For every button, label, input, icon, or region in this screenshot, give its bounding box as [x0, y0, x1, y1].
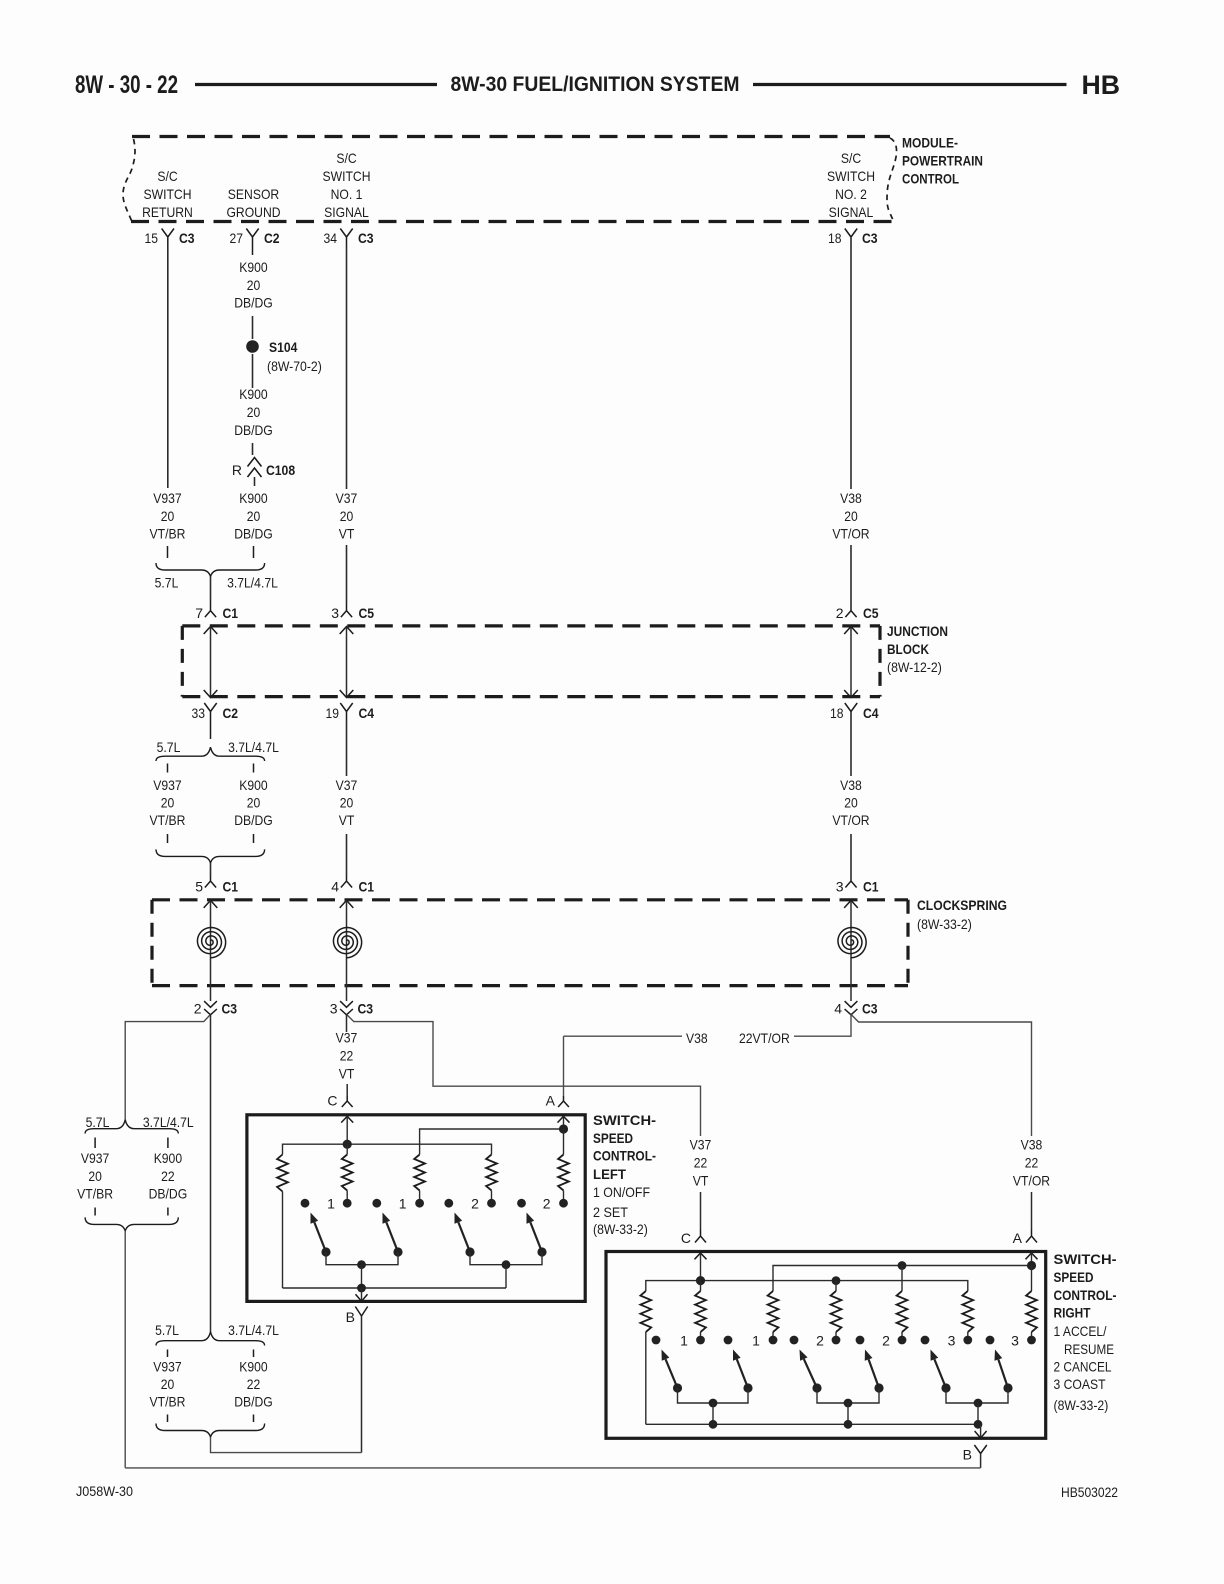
svg-text:SENSOR: SENSOR	[228, 186, 279, 202]
node switch S1 C	[343, 1140, 352, 1149]
node resistor R7 bottom pin 1	[696, 1336, 705, 1345]
junction block pass-through wire col1	[204, 627, 218, 635]
svg-text:MODULE-: MODULE-	[902, 135, 958, 151]
svg-text:VT/BR: VT/BR	[150, 526, 186, 542]
module U1 POWERTRAIN CONTROL top dashed edge	[132, 135, 890, 138]
svg-text:1 ON/OFF: 1 ON/OFF	[593, 1184, 650, 1200]
svg-text:VT/BR: VT/BR	[150, 812, 186, 828]
svg-text:V937: V937	[153, 777, 182, 793]
switch S1 C rail	[283, 1144, 492, 1154]
svg-text:A: A	[546, 1093, 556, 1109]
svg-text:20: 20	[844, 795, 858, 811]
svg-text:20: 20	[161, 508, 175, 524]
svg-text:C3: C3	[862, 230, 878, 246]
svg-text:C3: C3	[358, 1001, 374, 1017]
switch S2 terminal B connector	[974, 1445, 986, 1454]
svg-text:1: 1	[752, 1333, 760, 1349]
wire S/C switch no.2 signal V38	[850, 246, 852, 489]
clockspring dashed box right edge	[906, 900, 909, 986]
svg-text:S/C: S/C	[157, 168, 177, 184]
svg-text:3.7L/4.7L: 3.7L/4.7L	[143, 1114, 194, 1130]
svg-text:8W-30 FUEL/IGNITION SYSTEM: 8W-30 FUEL/IGNITION SYSTEM	[451, 73, 740, 96]
switch S1 pole bus left pair	[326, 1252, 398, 1265]
module U1 left torn edge	[123, 139, 135, 221]
svg-text:22: 22	[340, 1048, 354, 1064]
switch arm Q3	[465, 1247, 474, 1256]
switch S1 terminal C connector	[342, 1096, 353, 1107]
node resistor R12 bottom pin 3	[1027, 1336, 1036, 1345]
svg-text:5.7L: 5.7L	[157, 739, 181, 755]
connector C3 pin 18	[845, 229, 857, 247]
wire stub center col V937	[167, 1350, 169, 1358]
wire V37 to junction block	[346, 545, 348, 602]
svg-text:34: 34	[324, 230, 338, 246]
svg-text:2: 2	[836, 605, 844, 621]
svg-text:3.7L/4.7L: 3.7L/4.7L	[228, 739, 279, 755]
switch throw contact coast 2	[986, 1336, 995, 1345]
wire V38 right lower segment	[1031, 1192, 1033, 1230]
svg-text:7: 7	[195, 605, 203, 621]
svg-text:C2: C2	[264, 230, 280, 246]
resistor R8	[772, 1332, 774, 1336]
svg-text:NO. 1: NO. 1	[331, 186, 363, 202]
wire sensor ground upper segment	[252, 316, 254, 339]
svg-text:8W - 30 - 22: 8W - 30 - 22	[75, 71, 178, 99]
connector C1 pin 5	[205, 876, 216, 888]
svg-text:C: C	[681, 1230, 691, 1246]
svg-text:V937: V937	[81, 1150, 110, 1166]
svg-text:(8W-33-2): (8W-33-2)	[1054, 1397, 1109, 1413]
wire V38 to left switch A with label	[794, 1014, 851, 1036]
svg-text:DB/DG: DB/DG	[234, 1394, 273, 1410]
node A rail to resistor R10	[898, 1261, 907, 1270]
engine split brace 5.7L / 3.7L-4.7L merge	[156, 563, 265, 577]
svg-text:5.7L: 5.7L	[155, 1322, 179, 1338]
clockspring dashed box left edge	[150, 900, 153, 986]
resistor R9	[835, 1281, 837, 1291]
svg-text:DB/DG: DB/DG	[234, 812, 273, 828]
switch arm Q9	[941, 1383, 950, 1392]
switch S1 B exit wire	[361, 1288, 363, 1301]
svg-text:SIGNAL: SIGNAL	[829, 204, 874, 220]
svg-text:SIGNAL: SIGNAL	[324, 204, 369, 220]
wire V937/K900 main down	[210, 1014, 212, 1331]
node resistor R9 bottom pin 2	[832, 1336, 841, 1345]
resistor R4	[486, 1155, 497, 1191]
resistor R1 (left common)	[277, 1155, 288, 1192]
svg-text:POWERTRAIN: POWERTRAIN	[902, 153, 983, 169]
svg-text:5.7L: 5.7L	[86, 1114, 110, 1130]
svg-text:K900: K900	[239, 777, 268, 793]
switch S2 terminal A connector	[1026, 1230, 1037, 1243]
switch S1 terminal A connector	[558, 1096, 569, 1107]
connector C5 pin 2	[845, 602, 856, 617]
svg-text:3.7L/4.7L: 3.7L/4.7L	[227, 575, 278, 591]
svg-text:2: 2	[543, 1196, 551, 1212]
wire V37 branch to right switch	[347, 1014, 701, 1136]
wire B bus bottom	[125, 1467, 980, 1469]
clockspring coil wire col2	[340, 900, 354, 908]
wire stub col V937	[94, 1138, 96, 1149]
connector C4 pin 18	[845, 703, 857, 720]
clockspring dashed box bottom edge	[152, 984, 908, 987]
svg-text:BLOCK: BLOCK	[887, 641, 929, 657]
node resistor R10 bottom pin 2	[898, 1336, 907, 1345]
switch throw contact 4	[517, 1199, 526, 1208]
resistor R7	[700, 1281, 702, 1291]
svg-text:V38: V38	[840, 490, 862, 506]
svg-text:C1: C1	[863, 879, 879, 895]
svg-text:1: 1	[680, 1333, 688, 1349]
svg-text:VT/OR: VT/OR	[832, 812, 869, 828]
svg-text:SWITCH: SWITCH	[323, 168, 371, 184]
switch S2 A rail	[773, 1266, 1032, 1292]
node resistor R4 bottom pin 2	[487, 1199, 496, 1208]
svg-text:VT/OR: VT/OR	[1013, 1173, 1050, 1189]
connector C3 pin 15	[162, 229, 174, 247]
junction block pass-through wire col3	[844, 627, 858, 635]
resistor R11	[962, 1291, 973, 1332]
svg-text:DB/DG: DB/DG	[149, 1186, 188, 1202]
switch S2 C rail	[646, 1281, 968, 1291]
wire merged to junction block	[210, 577, 212, 602]
switch S1 terminal B connector	[355, 1307, 367, 1317]
svg-text:RIGHT: RIGHT	[1054, 1305, 1091, 1321]
svg-text:22VT/OR: 22VT/OR	[739, 1030, 790, 1046]
node resistor R2 bottom pin 1	[343, 1199, 352, 1208]
node switch S2 A	[1027, 1261, 1036, 1270]
svg-text:20: 20	[161, 795, 175, 811]
svg-text:GROUND: GROUND	[226, 204, 280, 220]
switch throw contact cancel 1	[790, 1336, 799, 1345]
svg-text:V37: V37	[336, 1030, 358, 1046]
svg-text:C4: C4	[359, 705, 375, 721]
switch S1 terminal C entry arrow	[341, 1116, 353, 1122]
svg-text:C3: C3	[222, 1001, 238, 1017]
switch S2 B exit wire	[980, 1424, 982, 1437]
svg-text:(8W-12-2): (8W-12-2)	[887, 659, 942, 675]
svg-text:VT: VT	[339, 526, 355, 542]
resistor R3	[414, 1155, 425, 1191]
switch S2 terminal C entry arrow	[695, 1253, 707, 1259]
svg-text:2: 2	[471, 1196, 479, 1212]
svg-text:K900: K900	[239, 1359, 268, 1375]
svg-text:2 SET: 2 SET	[593, 1204, 628, 1220]
wire stub col2 above merge	[253, 834, 255, 843]
svg-text:B: B	[346, 1309, 355, 1325]
svg-text:VT: VT	[339, 1066, 355, 1082]
svg-text:C1: C1	[359, 879, 375, 895]
switch S1 A rail	[420, 1129, 564, 1155]
wire stub col1 below split	[167, 764, 169, 773]
junction block dashed box top edge	[182, 624, 880, 627]
svg-text:V38: V38	[1021, 1137, 1043, 1153]
svg-text:JUNCTION: JUNCTION	[887, 623, 948, 639]
svg-text:1 ACCEL/: 1 ACCEL/	[1054, 1323, 1107, 1339]
wire V37 right lower segment	[700, 1192, 702, 1230]
switch arm Q6	[743, 1383, 752, 1392]
engine split brace 5.7L / 3.7L-4.7L split	[156, 747, 265, 761]
svg-text:C2: C2	[223, 705, 239, 721]
wire above C108	[252, 443, 254, 455]
switch S2 terminal C connector	[695, 1230, 706, 1243]
switch S2 terminal A entry arrow	[1026, 1253, 1038, 1259]
wire stub col K900	[167, 1138, 169, 1149]
junction block pass-through wire col2	[340, 627, 354, 635]
svg-text:22: 22	[247, 1376, 261, 1392]
switch S2 box outline	[606, 1252, 1046, 1439]
connector C1 pin 7	[205, 601, 216, 617]
wire V37 to clockspring	[346, 834, 348, 876]
connector C108	[248, 458, 262, 478]
svg-text:K900: K900	[239, 490, 268, 506]
svg-text:20: 20	[844, 508, 858, 524]
switch arm Q2	[393, 1247, 402, 1256]
svg-text:VT/OR: VT/OR	[832, 526, 869, 542]
svg-text:RETURN: RETURN	[142, 204, 193, 220]
svg-text:(8W-33-2): (8W-33-2)	[593, 1221, 648, 1237]
svg-text:RESUME: RESUME	[1064, 1341, 1114, 1357]
svg-text:K900: K900	[239, 259, 268, 275]
node C rail to resistor R9	[832, 1276, 841, 1285]
svg-text:VT/BR: VT/BR	[150, 1394, 186, 1410]
svg-text:20: 20	[88, 1168, 102, 1184]
connector C3 pin 34	[340, 229, 352, 247]
svg-text:K900: K900	[239, 386, 268, 402]
wire V38 to clockspring	[850, 834, 852, 876]
svg-text:C3: C3	[179, 230, 195, 246]
svg-text:C1: C1	[223, 605, 239, 621]
node switch S2 bus tap 2	[844, 1420, 853, 1429]
switch arm Q10	[1003, 1383, 1012, 1392]
svg-text:C1: C1	[223, 879, 239, 895]
svg-text:V38: V38	[840, 777, 862, 793]
svg-text:SPEED: SPEED	[1054, 1269, 1094, 1285]
connector C1 pin 4	[341, 876, 352, 888]
engine split brace left branch 5.7L / 3.7L-4.7L	[85, 1120, 178, 1134]
switch S2 pole bus pair 3	[946, 1388, 1008, 1403]
svg-text:CONTROL-: CONTROL-	[593, 1148, 656, 1164]
svg-text:20: 20	[161, 1376, 175, 1392]
svg-text:20: 20	[247, 404, 261, 420]
switch arm Q7	[812, 1383, 821, 1392]
svg-text:CLOCKSPRING: CLOCKSPRING	[917, 897, 1007, 913]
svg-text:S/C: S/C	[841, 150, 861, 166]
svg-text:3: 3	[836, 879, 844, 895]
switch S2 pole bus pair 1	[678, 1388, 749, 1403]
switch throw contact cancel 2	[856, 1336, 865, 1345]
svg-text:18: 18	[830, 705, 844, 721]
svg-text:DB/DG: DB/DG	[234, 295, 273, 311]
svg-text:20: 20	[340, 508, 354, 524]
svg-text:19: 19	[326, 705, 340, 721]
svg-text:2: 2	[882, 1333, 890, 1349]
resistor R10	[901, 1266, 903, 1292]
switch throw contact coast 1	[921, 1336, 930, 1345]
svg-text:3.7L/4.7L: 3.7L/4.7L	[228, 1322, 279, 1338]
svg-text:HB503022: HB503022	[1061, 1484, 1118, 1500]
svg-text:4: 4	[331, 879, 339, 895]
svg-text:V37: V37	[336, 490, 358, 506]
svg-text:DB/DG: DB/DG	[234, 526, 273, 542]
node resistor R3 bottom pin 1	[415, 1199, 424, 1208]
svg-text:C4: C4	[863, 705, 879, 721]
svg-text:18: 18	[828, 230, 842, 246]
svg-text:LEFT: LEFT	[593, 1166, 626, 1182]
svg-text:NO. 2: NO. 2	[835, 186, 867, 202]
resistor R2	[346, 1144, 348, 1154]
switch arm Q8	[874, 1383, 883, 1392]
node resistor R8 bottom pin 1	[769, 1336, 778, 1345]
wire below splice S104	[252, 354, 254, 388]
svg-text:C5: C5	[359, 605, 375, 621]
wire stub col2 above brace	[253, 546, 255, 558]
svg-text:V37: V37	[690, 1137, 712, 1153]
wire stub below col V937	[94, 1208, 96, 1216]
junction block dashed box bottom edge	[182, 695, 880, 698]
svg-text:J058W-30: J058W-30	[76, 1483, 133, 1499]
node resistor R5 bottom pin 2	[559, 1199, 568, 1208]
engine merge brace center	[156, 1424, 265, 1438]
svg-text:SWITCH: SWITCH	[144, 186, 192, 202]
svg-text:22: 22	[161, 1168, 175, 1184]
switch throw contact 2	[372, 1199, 381, 1208]
switch arm Q5	[673, 1383, 682, 1392]
wire stub below center col K900	[253, 1415, 255, 1423]
svg-text:C108: C108	[266, 462, 295, 478]
header rule right	[753, 83, 1067, 86]
resistor R12	[1031, 1266, 1033, 1292]
svg-text:SWITCH-: SWITCH-	[593, 1112, 656, 1128]
svg-text:DB/DG: DB/DG	[234, 422, 273, 438]
connector C1 pin 3	[845, 876, 856, 888]
svg-text:3 COAST: 3 COAST	[1054, 1376, 1106, 1392]
svg-text:27: 27	[230, 230, 244, 246]
svg-text:20: 20	[247, 277, 261, 293]
svg-text:5: 5	[195, 879, 203, 895]
resistor R5	[563, 1129, 565, 1155]
svg-text:3: 3	[948, 1333, 956, 1349]
switch S1 pole bus right pair	[470, 1252, 542, 1265]
wire left branch down to B bus	[124, 1231, 126, 1468]
wire V38 branch to right switch A	[851, 1014, 1032, 1136]
svg-text:V37: V37	[336, 777, 358, 793]
svg-text:2 CANCEL: 2 CANCEL	[1054, 1359, 1112, 1375]
svg-text:V38: V38	[686, 1030, 708, 1046]
connector C3 pin 2	[204, 1001, 217, 1007]
svg-text:3: 3	[331, 605, 339, 621]
wire V937/K900 branch to engine split left	[125, 1014, 210, 1119]
resistor R6 (left common)	[640, 1291, 651, 1332]
module U1 right torn edge	[887, 138, 897, 222]
node switch S2 C	[696, 1276, 705, 1285]
svg-text:22: 22	[694, 1155, 708, 1171]
svg-text:S/C: S/C	[336, 150, 356, 166]
clockspring coil wire col3	[844, 900, 858, 908]
wire S/C switch return V937	[167, 246, 169, 488]
switch S1 B bus	[283, 1287, 507, 1289]
connector C3 pin 3	[340, 1001, 353, 1007]
node switch S1 B	[357, 1284, 366, 1293]
switch arm Q4	[537, 1247, 546, 1256]
wire center merge to left switch B	[211, 1437, 362, 1453]
svg-text:SWITCH: SWITCH	[827, 168, 875, 184]
module U1 bottom dashed edge	[131, 220, 894, 223]
svg-text:SWITCH-: SWITCH-	[1054, 1251, 1117, 1267]
switch throw contact accel/resume 1	[652, 1336, 661, 1345]
svg-text:V937: V937	[153, 490, 182, 506]
svg-text:2: 2	[816, 1333, 824, 1349]
header rule left	[195, 83, 437, 86]
svg-text:VT: VT	[339, 812, 355, 828]
svg-text:CONTROL-: CONTROL-	[1054, 1287, 1117, 1303]
svg-text:2: 2	[194, 1001, 202, 1017]
svg-text:V937: V937	[153, 1359, 182, 1375]
connector C5 pin 3	[341, 602, 352, 617]
svg-text:33: 33	[192, 705, 206, 721]
node switch S2 bus tap 1	[709, 1420, 718, 1429]
svg-text:SPEED: SPEED	[593, 1130, 633, 1146]
svg-text:VT/BR: VT/BR	[77, 1186, 113, 1202]
clockspring dashed box top edge	[152, 898, 908, 901]
wire V37 to left switch C	[346, 1014, 348, 1032]
wire stub center col K900	[253, 1350, 255, 1358]
svg-text:A: A	[1013, 1230, 1023, 1246]
switch S1 terminal A entry arrow	[558, 1116, 570, 1122]
svg-text:1: 1	[399, 1196, 407, 1212]
svg-text:3: 3	[1011, 1333, 1019, 1349]
switch S2 pole bus pair 2	[817, 1388, 879, 1403]
splice S104	[246, 340, 259, 353]
wire stub col1 above merge	[167, 834, 169, 843]
engine merge brace left branch	[85, 1217, 178, 1231]
svg-text:C: C	[327, 1093, 337, 1109]
svg-text:B: B	[963, 1447, 972, 1463]
svg-text:20: 20	[340, 795, 354, 811]
wire stub below center col V937	[167, 1415, 169, 1423]
engine merge brace to clockspring	[156, 849, 265, 863]
connector C4 pin 19	[340, 703, 352, 720]
connector C2 pin 33	[204, 703, 216, 739]
switch S1 box outline	[247, 1115, 585, 1302]
svg-text:15: 15	[145, 230, 159, 246]
svg-text:5.7L: 5.7L	[155, 575, 179, 591]
svg-text:VT: VT	[693, 1173, 709, 1189]
svg-text:R: R	[232, 462, 242, 478]
svg-text:20: 20	[247, 508, 261, 524]
switch throw contact 1 (ON/OFF)	[301, 1199, 310, 1208]
svg-text:HB: HB	[1082, 70, 1121, 100]
svg-text:C5: C5	[863, 605, 879, 621]
svg-text:3: 3	[330, 1001, 338, 1017]
svg-text:22: 22	[1025, 1155, 1039, 1171]
switch arm Q1	[321, 1247, 330, 1256]
wire stub col2 below split	[253, 764, 255, 773]
junction block dashed box right edge	[878, 626, 881, 697]
node switch S2 B	[974, 1420, 983, 1429]
connector C2 pin 27	[246, 229, 258, 256]
clockspring coil wire col1	[204, 900, 218, 908]
svg-text:20: 20	[247, 795, 261, 811]
node switch S1 A	[559, 1124, 568, 1133]
svg-text:(8W-70-2): (8W-70-2)	[267, 358, 322, 374]
switch throw contact 3	[444, 1199, 453, 1208]
svg-text:C3: C3	[862, 1001, 878, 1017]
svg-text:S104: S104	[269, 339, 298, 355]
svg-text:CONTROL: CONTROL	[902, 171, 959, 187]
node resistor R11 bottom pin 3	[963, 1336, 972, 1345]
svg-text:1: 1	[327, 1196, 335, 1212]
